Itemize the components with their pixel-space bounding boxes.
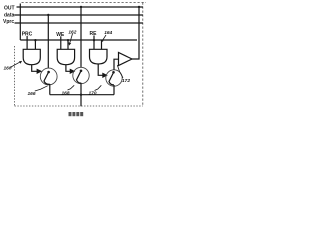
bottom caption smudge bbox=[69, 112, 84, 116]
gate 160 body bbox=[23, 49, 40, 64]
transistor 170 circle bbox=[106, 70, 122, 86]
svg-text:168: 168 bbox=[62, 90, 70, 96]
wire gate 162 input from bus bbox=[67, 40, 69, 49]
wire Vprc bus bbox=[15, 22, 144, 24]
wire left vertical drop bbox=[19, 4, 21, 41]
wire OUT bus bbox=[17, 6, 144, 8]
arrowhead into transistor 166 bbox=[37, 70, 41, 73]
wire gate 164 input from bus bbox=[101, 40, 103, 49]
arrowhead into transistor 170 bbox=[103, 74, 107, 77]
transistor 170 drain stub bbox=[113, 85, 115, 95]
leader 164 bbox=[102, 35, 106, 42]
transistor 168 circle bbox=[73, 67, 89, 83]
wire gate 160 input from bus bbox=[34, 40, 36, 49]
transistor 168 channel bbox=[77, 71, 82, 83]
leader 160 bbox=[10, 61, 21, 67]
leader 170 bbox=[95, 85, 102, 90]
arrowhead into transistor 168 bbox=[70, 70, 74, 73]
svg-text:RE: RE bbox=[90, 31, 98, 37]
wire WE input to gate 162 bbox=[60, 36, 62, 49]
svg-text:166: 166 bbox=[28, 91, 36, 97]
junction dot bus gate 164 bbox=[93, 39, 95, 41]
svg-text:172: 172 bbox=[122, 78, 130, 84]
wire OUT line to transistor 168 bbox=[80, 7, 82, 68]
wire data line to transistor 166 bbox=[47, 15, 49, 68]
svg-text:162: 162 bbox=[68, 29, 76, 35]
leader 160 arrowhead bbox=[19, 61, 22, 64]
transistor 166 circle bbox=[40, 68, 57, 85]
svg-text:WE: WE bbox=[56, 32, 65, 38]
leader 162 bbox=[69, 34, 72, 45]
wire gate 164 output to transistor 170 bbox=[98, 64, 103, 75]
leader 172 bbox=[117, 65, 123, 78]
bottom common wire bbox=[50, 94, 114, 96]
wire Vprc distribution bus bbox=[20, 39, 137, 41]
wire gate 160 output to transistor 166 bbox=[32, 65, 38, 72]
wire buffer input from transistor 170 bbox=[114, 59, 119, 70]
leader 162 arrowhead bbox=[68, 42, 71, 45]
svg-text:164: 164 bbox=[104, 30, 112, 36]
dashed border bottom bbox=[15, 105, 143, 107]
background bbox=[0, 0, 146, 120]
svg-text:OUT: OUT bbox=[4, 6, 15, 12]
transistor 166 drain stub bbox=[49, 84, 51, 95]
gate 164 body bbox=[90, 49, 108, 64]
junction dot bus gate 160 bbox=[34, 39, 36, 41]
svg-text:160: 160 bbox=[4, 66, 12, 72]
transistor 170 channel bbox=[109, 73, 114, 85]
dashed border left bbox=[14, 46, 16, 106]
leader 164 arrowhead bbox=[101, 40, 104, 43]
junction dot transistor 166 top bbox=[47, 71, 50, 74]
dashed border top bbox=[22, 2, 147, 4]
wire gate 162 output to transistor 168 bbox=[66, 65, 71, 72]
junction dot OUT/buffer bbox=[138, 6, 140, 8]
transistor 166 channel bbox=[44, 72, 50, 84]
buffer amplifier triangle bbox=[119, 53, 133, 66]
transistor 168 drain stub bbox=[80, 83, 82, 106]
junction dot bottom wire bbox=[80, 94, 82, 96]
gate 162 body bbox=[57, 49, 74, 64]
svg-text:Vprc: Vprc bbox=[3, 19, 14, 25]
svg-text:data: data bbox=[4, 13, 15, 19]
junction dot bus gate 162 bbox=[67, 39, 69, 41]
svg-text:170: 170 bbox=[89, 90, 97, 96]
svg-text:PRC: PRC bbox=[22, 31, 33, 37]
wire PRC input to gate 160 bbox=[26, 36, 28, 49]
wire buffer output to OUT bbox=[132, 7, 139, 59]
leader 168 bbox=[68, 85, 75, 90]
leader 166 bbox=[35, 86, 48, 91]
junction dot transistor 168 top bbox=[80, 70, 83, 73]
junction dot data/166 bbox=[47, 14, 49, 16]
dashed border right bbox=[142, 3, 144, 107]
wire data bus bbox=[14, 14, 143, 16]
junction dot OUT/168 bbox=[80, 6, 82, 8]
wire RE input to gate 164 bbox=[93, 36, 95, 50]
junction dot transistor 170 top bbox=[112, 71, 115, 74]
